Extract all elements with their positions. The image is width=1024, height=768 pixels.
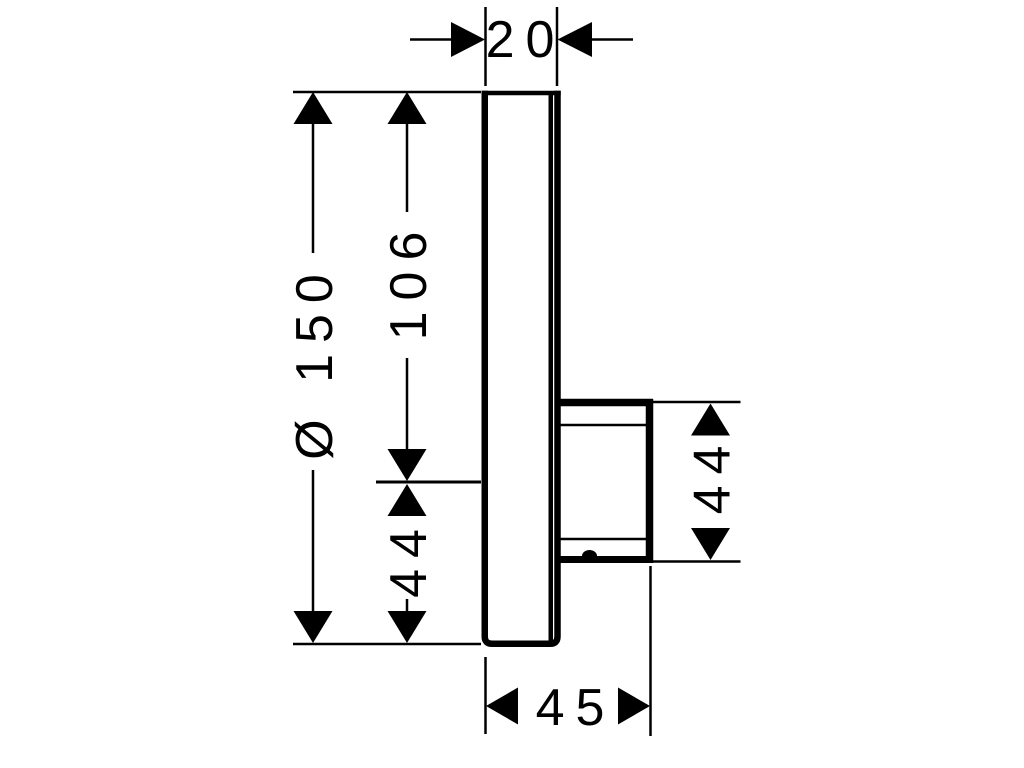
dim 150 upper line segment <box>312 122 315 253</box>
valve body upper inner line <box>559 424 646 427</box>
dim 20 left tail line <box>410 38 452 41</box>
dim 150 top arrow <box>294 92 333 124</box>
svg-text:20: 20 <box>486 11 566 69</box>
dim 45 right arrow <box>618 688 650 725</box>
dim 44 left bottom arrow <box>388 611 427 643</box>
dim 106 lower line segment <box>406 358 409 449</box>
dim 45 left arrow <box>486 688 518 725</box>
plate inner face line <box>549 95 554 641</box>
dim 45 left extension line <box>484 657 487 734</box>
valve body bottom edge <box>558 556 653 563</box>
valve body lower inner line <box>559 538 646 541</box>
dim 20 right arrow <box>558 22 593 57</box>
dim 44 left top arrow <box>388 484 427 516</box>
dim 20 right extension line <box>556 7 559 86</box>
dim 44 right top extension line <box>653 401 741 404</box>
svg-text:45: 45 <box>536 679 616 737</box>
plate top edge <box>482 91 561 96</box>
dim 150 lower line segment <box>312 470 315 613</box>
dim 44 right bottom arrow <box>691 528 730 560</box>
junction tick line <box>376 481 481 484</box>
dim 20 left arrow <box>451 22 485 57</box>
dim 150 bottom arrow <box>294 611 333 643</box>
svg-text:44: 44 <box>684 435 742 515</box>
bottom horizontal extension line <box>293 643 481 646</box>
dim 20 left extension line <box>484 7 487 86</box>
dim 45 right extension line <box>649 566 652 736</box>
svg-text:Ø 150: Ø 150 <box>286 263 344 460</box>
dim 106 bottom arrow <box>388 449 427 481</box>
valve body top edge <box>558 399 653 407</box>
valve body right edge <box>646 399 654 563</box>
dim 106 upper line segment <box>406 122 409 212</box>
plate body outline <box>485 91 558 644</box>
dim 44 right bottom extension line <box>653 560 741 563</box>
svg-text:106: 106 <box>380 221 438 341</box>
dim 44 right top arrow <box>691 404 730 436</box>
dim 44 left lower line segment <box>406 599 409 613</box>
valve body bottom bump <box>582 550 597 556</box>
dim 106 top arrow <box>388 92 427 124</box>
svg-text:44: 44 <box>380 518 438 598</box>
top horizontal extension line <box>293 91 481 94</box>
dim 20 right tail line <box>591 38 633 41</box>
